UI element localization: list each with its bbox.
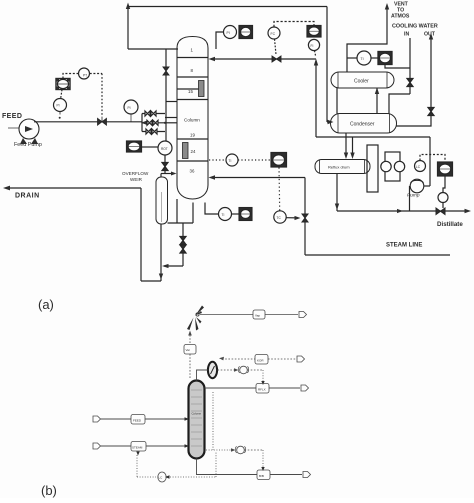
column tray line node 8 — [177, 76, 208, 78]
wire vap product line — [200, 314, 253, 316]
wire rotameter to valve — [164, 155, 166, 163]
svg-text:FC: FC — [271, 32, 276, 36]
wire dash PIC-PT — [63, 74, 78, 79]
wire bottoms collector — [168, 222, 194, 224]
wire feed branch mid — [142, 122, 165, 124]
wire dotted to LC — [137, 476, 156, 478]
stream box STEAM — [131, 442, 146, 452]
svg-text:1: 1 — [191, 48, 194, 53]
arrow into valve b1 — [234, 368, 239, 371]
wire column bottom stub right — [192, 203, 194, 224]
arrow distillate mid — [397, 209, 403, 213]
valve V-b2a — [147, 120, 152, 125]
arrow drain out — [3, 186, 10, 191]
instrument FRC-reflux square — [307, 26, 321, 38]
gauge frame 2 — [385, 152, 400, 181]
arrow vent up — [385, 3, 389, 10]
stream box rflx — [256, 384, 269, 394]
wire FRC to rotameter — [142, 146, 158, 148]
instrument FT reflux circle — [308, 39, 319, 50]
column tray line node 15a — [177, 88, 199, 90]
node junction dot — [164, 122, 166, 124]
arrow feed into column — [185, 417, 190, 421]
stream arrow vap out — [299, 312, 307, 318]
wire dash drop to feed valve — [101, 74, 103, 118]
wire weir pot internal — [161, 192, 163, 222]
wire condensate to drum — [345, 133, 347, 156]
valve V-cwout — [428, 108, 434, 116]
wire reflux tee to drum — [352, 137, 354, 156]
wire dotted TI to column — [209, 159, 226, 161]
valve V-cwin — [407, 79, 413, 87]
feed pump P1 — [19, 119, 39, 144]
svg-text:TI: TI — [222, 213, 225, 217]
valve V-b1a — [145, 111, 150, 116]
vessel overflow weir pot — [156, 177, 168, 224]
vessel condenser shell — [331, 114, 397, 134]
svg-text:(a): (a) — [38, 297, 54, 312]
svg-text:PT: PT — [83, 74, 87, 78]
arrow into box btms — [261, 467, 264, 471]
arrow cw out up — [429, 33, 433, 40]
svg-text:Condenser: Condenser — [350, 122, 375, 128]
thermowell T24 — [183, 143, 189, 159]
wire reflux product line right — [269, 387, 300, 389]
wire dotted steam signal down — [136, 455, 138, 477]
wire drain drop — [140, 188, 142, 281]
stream arrow rflx out — [301, 385, 309, 391]
svg-text:COOLING WATER: COOLING WATER — [392, 24, 438, 30]
wire bypass line from overhead — [165, 49, 167, 141]
wire positioner to valve — [442, 203, 444, 209]
wire overhead top run — [128, 6, 327, 8]
wire reflux run under condenser — [316, 136, 430, 138]
wire column bottom stub left — [176, 199, 178, 223]
valve glyph b2 — [235, 446, 245, 454]
wire FT dash to line — [315, 51, 316, 57]
wire dotted TI to TRC — [238, 159, 271, 161]
arrow dashed up to flare — [188, 331, 192, 336]
instrument PR square — [239, 26, 253, 39]
svg-text:Var: Var — [186, 348, 190, 352]
arrow distillate out — [465, 209, 472, 213]
column C1 shell — [177, 37, 208, 200]
wire feed branch top — [142, 113, 165, 115]
wire column feed stub tray15 — [165, 117, 177, 119]
arrow reflux tee into drum — [350, 153, 354, 160]
tiny text labels diagram (b) — [132, 314, 266, 480]
arrow into valve b2 — [231, 448, 236, 451]
wire overhead vapor line horizontal to column top — [128, 48, 178, 50]
instrument TR-bottom square — [239, 208, 252, 221]
svg-text:LC: LC — [159, 476, 164, 480]
column (b) shell — [189, 381, 205, 459]
instrument TIC cooler square — [378, 52, 392, 65]
svg-text:FEED: FEED — [133, 419, 142, 423]
svg-text:Reflux drum: Reflux drum — [328, 165, 350, 170]
svg-text:ROT: ROT — [161, 147, 168, 151]
svg-text:RFLX: RFLX — [258, 388, 266, 392]
svg-text:FEED: FEED — [2, 113, 22, 120]
svg-text:Column: Column — [192, 412, 202, 416]
column tray line node 19 — [177, 138, 208, 140]
wire drain header — [6, 187, 141, 189]
svg-text:19: 19 — [190, 133, 195, 138]
valve V-feed control — [98, 118, 107, 125]
svg-text:LC: LC — [416, 165, 421, 169]
stream box Vap — [253, 310, 265, 319]
arrow feed branch mid — [141, 121, 147, 125]
svg-text:Vap: Vap — [255, 314, 260, 318]
wire TIC to CW in — [385, 65, 410, 69]
instrument PIC feed square — [56, 79, 70, 90]
wire cooler left downleg — [336, 88, 338, 114]
valve V-b1b — [151, 111, 156, 116]
arrow drum leg down — [335, 204, 339, 211]
instrument PT feed circle — [79, 68, 90, 79]
valve glyph b1 — [238, 366, 248, 374]
arrow into condenser — [328, 120, 334, 124]
svg-text:PI: PI — [57, 104, 60, 108]
wire pump discharge — [424, 185, 430, 187]
column tray line node 15b — [177, 99, 208, 101]
gauge frame 1 — [367, 145, 378, 192]
wire steam into column — [211, 177, 305, 179]
svg-text:OVERFLOW: OVERFLOW — [122, 171, 149, 176]
wire dotted bottoms signal — [206, 449, 231, 451]
stream arrow feed in — [93, 416, 101, 422]
wire PT tap — [216, 32, 224, 49]
arrow reflux into column — [209, 57, 216, 61]
svg-text:FI: FI — [311, 44, 314, 48]
wire dash LC to FC — [420, 155, 445, 163]
valve V-steam — [302, 214, 308, 222]
column tray line node 24 — [177, 160, 208, 162]
wire steam line (b) — [101, 445, 132, 447]
wire overhead vapor riser left — [127, 7, 129, 50]
instrument TRC square — [271, 153, 287, 168]
rotameter R1 — [158, 141, 172, 155]
wire stub into condenser — [327, 121, 331, 123]
wire reflux product line left — [205, 387, 257, 389]
svg-text:TI: TI — [361, 57, 364, 61]
wire drain bottom run — [141, 280, 161, 282]
svg-text:OUT: OUT — [424, 32, 436, 38]
wire dotted drop b2 — [262, 450, 264, 467]
svg-text:24: 24 — [191, 149, 196, 154]
arrow reflux riser up — [314, 59, 318, 66]
wire bottom inlet run — [161, 173, 174, 175]
instrument TI tray24 circle — [226, 154, 238, 166]
arrow bottoms to drain — [162, 264, 169, 268]
arrow vent signal left — [219, 357, 224, 361]
wire condenser to cooler riser — [376, 88, 378, 114]
wire vap product line right — [265, 314, 298, 316]
wire bottoms downleg — [182, 223, 184, 266]
svg-text:15: 15 — [188, 89, 193, 94]
svg-text:Pump: Pump — [407, 193, 420, 199]
svg-text:(b): (b) — [41, 483, 57, 498]
wire reflux riser — [315, 63, 317, 137]
vessel cooler shell — [331, 72, 394, 88]
wire PI2 stem — [130, 114, 132, 122]
node feed manifold header left — [141, 114, 143, 132]
valve V-b3b — [152, 129, 157, 134]
arrow riser up into cooler — [375, 88, 379, 95]
wire dash PT right — [90, 73, 102, 75]
valve V-distillate — [436, 208, 445, 215]
stream arrow steam in — [93, 443, 101, 449]
column tray line node 1 — [177, 57, 208, 59]
svg-text:ATMOS: ATMOS — [391, 14, 410, 20]
svg-text:PI: PI — [227, 31, 230, 35]
vessel reflux drum — [315, 160, 370, 174]
svg-text:TI: TI — [229, 159, 232, 163]
wire TI link — [232, 213, 240, 215]
stream arrow vent out — [297, 356, 305, 362]
wire dotted LC to column — [170, 476, 216, 478]
wire reflux header into column — [211, 58, 316, 60]
wire weir pot top stub — [160, 174, 162, 178]
pump P2 reflux — [410, 179, 424, 193]
wire bottoms to drain — [164, 265, 183, 267]
wire dotted column side — [212, 392, 214, 450]
signal box Var — [184, 345, 196, 355]
wire dashed vent signal — [222, 358, 255, 360]
arrow condensate into drum — [344, 153, 348, 160]
instrument TI cooler circle — [357, 51, 371, 65]
wire pump discharge riser — [429, 137, 431, 186]
signal marker under steam box — [136, 452, 139, 456]
stream box btms — [257, 470, 270, 480]
stream box FEED — [131, 415, 145, 425]
stream arrow btms out — [303, 472, 311, 478]
wire valve to bottom inlet — [164, 171, 166, 174]
thermowell T15 — [199, 81, 205, 97]
wire dashed to column top — [189, 354, 191, 378]
wire dash PIC-PI — [61, 90, 62, 99]
svg-text:STEAM: STEAM — [132, 446, 143, 450]
wire pump suction — [8, 127, 19, 129]
valve V-btm1 — [180, 237, 186, 245]
wire feed branch bottom — [142, 131, 165, 133]
wire FC square to positioner — [443, 176, 445, 193]
wire PI stem — [59, 112, 61, 115]
arrow weir downleg — [159, 274, 163, 280]
arrow steam into column — [185, 444, 190, 448]
valve V-rot — [162, 163, 168, 171]
wire cooling water in — [409, 38, 411, 94]
wire feed main line — [34, 121, 142, 123]
svg-text:IN: IN — [404, 32, 409, 38]
instrument PT column top circle — [224, 26, 237, 39]
wire cooling water out — [397, 37, 432, 126]
wire cw in to condenser — [389, 94, 410, 114]
svg-text:Column: Column — [184, 118, 200, 123]
svg-text:Cooler: Cooler — [354, 79, 369, 85]
wire dotted drop b1 — [262, 370, 264, 381]
wire dashed vent signal right — [268, 358, 296, 360]
instrument TC steam circle — [274, 211, 286, 223]
wire TC to steam valve arrow — [287, 217, 298, 219]
instrument positioner circle — [438, 193, 448, 203]
wire dotted riser right of column — [215, 452, 217, 477]
arrow steam into column — [209, 175, 216, 179]
wire FC dash to valve — [275, 39, 277, 55]
wire overhead drop to condenser — [326, 7, 328, 123]
svg-text:Distillate: Distillate — [437, 221, 463, 228]
wire FC dashes up — [274, 22, 314, 28]
wire pump suction leg — [409, 187, 412, 212]
svg-text:8: 8 — [191, 68, 194, 73]
wire distillate run — [337, 210, 468, 212]
svg-text:STEAM LINE: STEAM LINE — [386, 243, 422, 249]
wire steam riser — [304, 178, 306, 256]
wire TI cooler link — [347, 57, 357, 59]
arrow overhead riser up — [126, 3, 130, 10]
valve V-b2b — [153, 120, 158, 125]
valve V-reflux — [272, 56, 281, 62]
signal box KOR — [255, 355, 268, 365]
wire steam line right — [146, 445, 186, 447]
wire vent from cooler — [347, 7, 387, 72]
wire column feed stub tray19 — [165, 122, 177, 124]
wire bottom sample stub — [205, 203, 218, 215]
arrow bottom inlet — [171, 172, 177, 176]
instrument LI circle — [394, 161, 404, 171]
flare symbol — [187, 306, 204, 331]
instrument PI2 circle at manifold — [124, 100, 138, 114]
arrow into box rflx — [261, 381, 264, 385]
wire dashed condenser signal — [218, 369, 235, 371]
svg-text:DRAIN: DRAIN — [15, 193, 40, 200]
wire bottoms product right — [270, 474, 302, 476]
valve V-bypass — [163, 67, 169, 75]
condenser (b) — [208, 362, 217, 378]
valve V-btm2 — [180, 245, 186, 253]
instrument LG circle — [381, 161, 391, 171]
wire steam line run — [305, 254, 450, 256]
wire dotted TRC down — [278, 168, 281, 211]
svg-text:TC: TC — [277, 216, 282, 220]
wire dashed flare feed — [189, 335, 191, 345]
svg-text:KOR: KOR — [257, 359, 264, 363]
controller LC glyph — [158, 472, 170, 482]
wire bottoms product left — [197, 459, 258, 475]
wire weir pot downleg — [160, 224, 162, 281]
svg-text:WEIR: WEIR — [130, 177, 143, 182]
instrument FRC — [127, 141, 142, 152]
wire column feed stub tray8 — [166, 101, 177, 103]
wire feed line — [101, 418, 132, 420]
instrument FC-distillate square — [438, 162, 453, 176]
wire dashed from valve b1 — [248, 369, 264, 371]
wire dashed from valve b2 — [245, 449, 264, 451]
instrument TI-bottom circle — [219, 208, 232, 221]
wire column top to condenser — [197, 370, 208, 381]
instrument LC drum circle — [415, 161, 426, 172]
svg-text:Feed Pump: Feed Pump — [14, 142, 42, 148]
svg-text:PI: PI — [128, 106, 131, 110]
node dot on feed line — [59, 117, 61, 119]
wire drum bottom leg — [336, 174, 338, 212]
svg-text:36: 36 — [190, 169, 195, 174]
instrument PI feed circle — [54, 99, 67, 112]
valve V-b3a — [146, 129, 151, 134]
svg-text:B/B: B/B — [259, 474, 264, 478]
instrument FC reflux circle — [268, 27, 280, 39]
wire feed line right — [145, 418, 186, 420]
